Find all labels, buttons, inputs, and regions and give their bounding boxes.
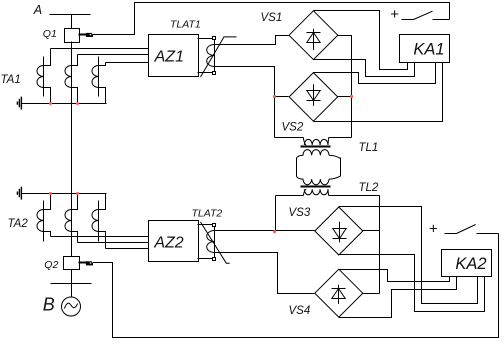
svg-text:B: B xyxy=(43,294,55,314)
svg-text:TL1: TL1 xyxy=(359,142,379,154)
svg-text:VS1: VS1 xyxy=(261,12,283,24)
svg-text:VS4: VS4 xyxy=(289,305,311,317)
svg-text:Q2: Q2 xyxy=(44,259,58,271)
svg-text:TA1: TA1 xyxy=(1,74,21,86)
svg-text:+: + xyxy=(429,220,438,237)
svg-text:+: + xyxy=(390,6,399,23)
svg-text:AZ1: AZ1 xyxy=(154,49,184,66)
svg-text:TL2: TL2 xyxy=(359,182,379,194)
svg-text:Q1: Q1 xyxy=(43,28,57,40)
svg-text:VS2: VS2 xyxy=(282,122,304,134)
svg-text:AZ2: AZ2 xyxy=(153,235,183,252)
svg-text:A: A xyxy=(33,3,42,17)
svg-text:TLAT1: TLAT1 xyxy=(170,18,201,30)
svg-text:KA1: KA1 xyxy=(413,40,444,58)
svg-text:TLAT2: TLAT2 xyxy=(192,207,223,219)
svg-text:VS3: VS3 xyxy=(289,207,311,219)
svg-text:KA2: KA2 xyxy=(455,255,486,273)
svg-text:TA2: TA2 xyxy=(8,218,29,230)
